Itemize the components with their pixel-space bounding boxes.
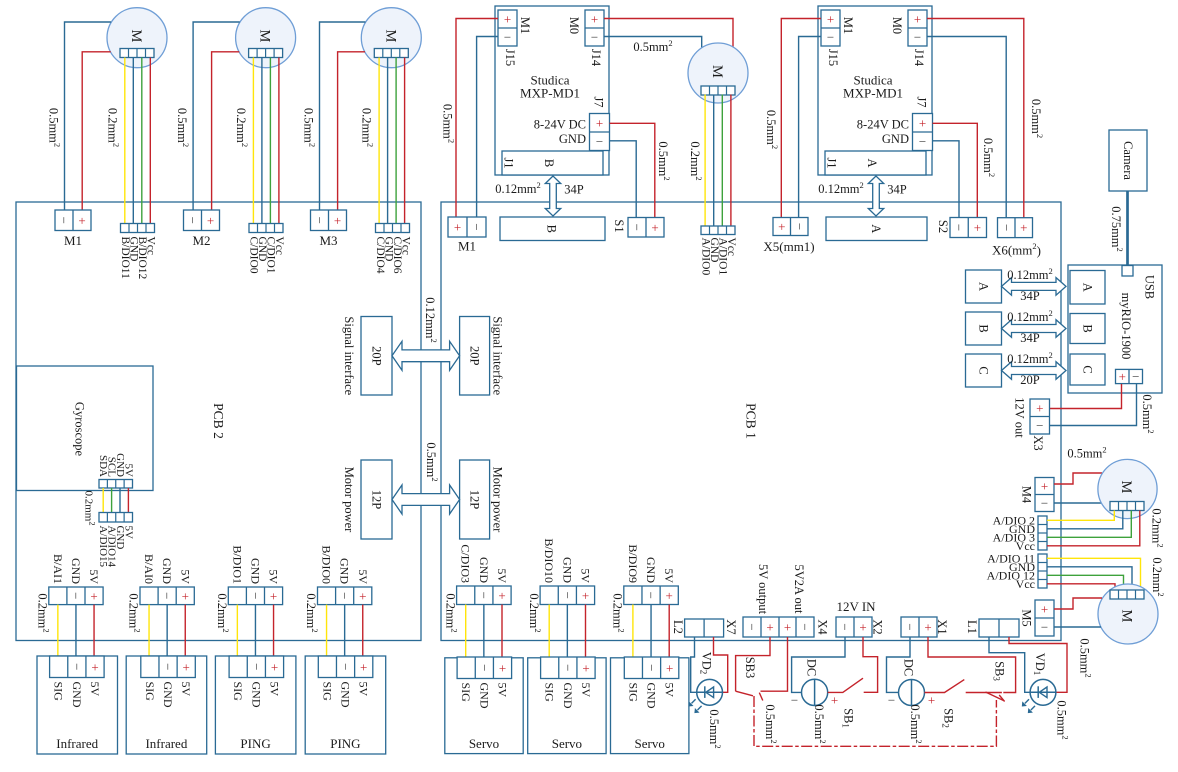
motor driver U1 Studica MXP-MD1 box bbox=[495, 6, 609, 175]
svg-text:L1: L1 bbox=[965, 620, 979, 634]
wire servo GND (blue) bbox=[650, 605, 652, 658]
connector B/DIO1 (PCB2 bottom header) bbox=[228, 587, 282, 605]
wire myRIO 12V+ to X3 (red) bbox=[1050, 384, 1122, 409]
svg-text:M1: M1 bbox=[518, 17, 532, 34]
wire L2-2 to VD2 (red) bbox=[714, 637, 728, 692]
U2 connector M1 (J15) bbox=[821, 10, 840, 46]
svg-text:X6(mm2): X6(mm2) bbox=[992, 241, 1041, 258]
svg-text:+: + bbox=[182, 588, 189, 603]
svg-text:0.2mm2: 0.2mm2 bbox=[215, 593, 231, 632]
svg-text:−: − bbox=[249, 663, 264, 670]
svg-text:−: − bbox=[1041, 496, 1048, 511]
connector M2 (PCB2 power terminal) bbox=[184, 210, 220, 231]
svg-text:−: − bbox=[504, 30, 511, 45]
connector X3 (12V out) bbox=[1030, 399, 1050, 434]
svg-text:+: + bbox=[582, 588, 589, 603]
svg-text:GND: GND bbox=[561, 683, 575, 709]
svg-text:5V: 5V bbox=[87, 569, 101, 584]
svg-text:−: − bbox=[827, 30, 834, 45]
wire M3 plus (0.5mm2 red) bbox=[338, 52, 365, 210]
svg-text:5V: 5V bbox=[496, 683, 510, 698]
box Signal interface 20P (PCB2 side) bbox=[361, 317, 392, 396]
wire U1 M0+ to motor (red) bbox=[604, 19, 733, 47]
wire center motor encoder yellow bbox=[704, 95, 706, 227]
svg-text:−: − bbox=[469, 223, 484, 230]
svg-text:−: − bbox=[68, 592, 83, 599]
svg-text:SB3: SB3 bbox=[743, 657, 757, 679]
svg-text:Gyroscope: Gyroscope bbox=[73, 402, 87, 457]
svg-text:+: + bbox=[591, 12, 598, 27]
svg-text:−: − bbox=[838, 623, 853, 630]
svg-text:PCB 2: PCB 2 bbox=[211, 403, 226, 439]
svg-text:M: M bbox=[257, 30, 273, 43]
svg-text:SIG: SIG bbox=[626, 683, 640, 703]
connector X2 bbox=[836, 617, 872, 637]
connector X5 bbox=[773, 218, 808, 236]
svg-text:B/DIO1: B/DIO1 bbox=[230, 545, 244, 584]
svg-text:C: C bbox=[1081, 365, 1095, 373]
wire U1 J7+ to S1+ (red) bbox=[610, 123, 655, 218]
svg-text:+: + bbox=[928, 693, 935, 708]
svg-text:0.2mm2: 0.2mm2 bbox=[1150, 557, 1166, 596]
svg-text:−: − bbox=[919, 134, 926, 149]
connector L1 bbox=[979, 619, 1019, 637]
svg-text:J7: J7 bbox=[915, 96, 929, 107]
svg-text:0.5mm2: 0.5mm2 bbox=[441, 104, 457, 143]
svg-text:Camera: Camera bbox=[1121, 141, 1135, 180]
wire PING 5V (red) bbox=[273, 605, 275, 656]
switch SB3b blade bbox=[986, 692, 1004, 701]
svg-text:GND: GND bbox=[69, 558, 83, 584]
svg-text:J1: J1 bbox=[502, 157, 516, 168]
svg-text:Infrared: Infrared bbox=[56, 736, 98, 751]
svg-text:M: M bbox=[1119, 610, 1135, 623]
U1 connector M1 (J15) bbox=[498, 10, 517, 46]
svg-text:VD1: VD1 bbox=[1032, 653, 1047, 676]
svg-text:+: + bbox=[360, 659, 367, 674]
wire M3 encoder green bbox=[395, 58, 397, 224]
wire L2-1 to VD2 (blue) bbox=[691, 637, 697, 692]
connector S1 bbox=[628, 218, 664, 238]
wire U2 M1+ to X5+ (red) bbox=[781, 19, 821, 218]
svg-text:−: − bbox=[560, 664, 575, 671]
svg-text:GND: GND bbox=[338, 558, 352, 584]
svg-text:−: − bbox=[644, 592, 659, 599]
svg-text:+: + bbox=[666, 660, 673, 675]
wire M2 minus (0.5mm2 blue) bbox=[193, 22, 240, 210]
LED VD1 bbox=[1030, 679, 1056, 705]
svg-text:J14: J14 bbox=[589, 49, 603, 67]
svg-text:DC: DC bbox=[805, 659, 819, 676]
svg-text:0.2mm2: 0.2mm2 bbox=[35, 593, 51, 632]
svg-text:+: + bbox=[1041, 602, 1048, 617]
svg-text:X2: X2 bbox=[871, 619, 885, 634]
connector PCB2 gyro pins (A/DIO15 A/DIO14 GND 5V) bbox=[99, 513, 133, 523]
wire M1 encoder red bbox=[149, 58, 151, 224]
wire M3 encoder red bbox=[404, 58, 406, 224]
svg-text:5V: 5V bbox=[356, 569, 370, 584]
svg-text:20P: 20P bbox=[468, 346, 482, 366]
svg-text:X7: X7 bbox=[724, 619, 738, 634]
svg-text:0.5mm2: 0.5mm2 bbox=[175, 108, 191, 147]
servo box bbox=[611, 658, 689, 754]
connector Infrared (SIG GND 5V) bbox=[50, 656, 105, 678]
svg-text:+: + bbox=[666, 588, 673, 603]
svg-text:DC: DC bbox=[902, 659, 916, 676]
svg-text:8-24V DC: 8-24V DC bbox=[857, 117, 909, 131]
svg-text:−: − bbox=[337, 592, 352, 599]
svg-text:GND: GND bbox=[160, 558, 174, 584]
svg-text:−: − bbox=[1036, 418, 1043, 433]
PCB 2 board outline bbox=[16, 202, 421, 641]
svg-text:+: + bbox=[499, 660, 506, 675]
svg-text:J14: J14 bbox=[912, 49, 926, 67]
svg-text:J7: J7 bbox=[592, 96, 606, 107]
svg-text:+: + bbox=[454, 220, 461, 235]
svg-text:0.2mm2: 0.2mm2 bbox=[443, 593, 459, 632]
svg-text:−: − bbox=[644, 664, 659, 671]
svg-text:0.12mm2: 0.12mm2 bbox=[818, 180, 864, 196]
connector B/AI1 (PCB2 bottom header) bbox=[49, 587, 103, 605]
svg-text:GND: GND bbox=[338, 682, 352, 708]
U1 connector J7 power in bbox=[590, 114, 610, 151]
svg-text:34P: 34P bbox=[1020, 331, 1040, 345]
svg-text:B: B bbox=[1081, 324, 1095, 332]
svg-text:M1: M1 bbox=[458, 239, 476, 254]
svg-text:Vcc: Vcc bbox=[399, 237, 411, 256]
wire X2+ to SB1 contact (red) bbox=[863, 637, 878, 692]
wire servo GND (blue) bbox=[483, 605, 485, 658]
wire myRIO 12V- to X3 (blue) bbox=[1050, 384, 1137, 426]
svg-text:+: + bbox=[582, 660, 589, 675]
svg-text:Signal interface: Signal interface bbox=[342, 316, 356, 395]
wire M5 encoder yellow bbox=[1047, 558, 1141, 590]
wire PING signal (yellow) bbox=[326, 605, 328, 656]
connector A (myRIO side) bbox=[1070, 271, 1105, 305]
svg-text:+: + bbox=[90, 588, 97, 603]
svg-text:−: − bbox=[69, 663, 84, 670]
svg-text:5V: 5V bbox=[662, 568, 676, 583]
svg-text:GND: GND bbox=[248, 558, 262, 584]
svg-text:20P: 20P bbox=[370, 346, 384, 366]
svg-text:0.2mm2: 0.2mm2 bbox=[83, 490, 98, 525]
svg-text:5V: 5V bbox=[579, 568, 593, 583]
ribbon arrow C bbox=[1002, 362, 1067, 380]
connector PING (SIG GND 5V) bbox=[318, 656, 373, 678]
connector Infrared (SIG GND 5V) bbox=[141, 656, 196, 678]
wire Infrared signal (yellow) bbox=[148, 605, 150, 656]
connector M3 (PCB2 power terminal) bbox=[311, 210, 347, 231]
wire X4+ to SB3 (red) bbox=[736, 637, 770, 691]
motor M5 (DC motor symbol) bbox=[1098, 584, 1158, 644]
svg-text:0.5mm2: 0.5mm2 bbox=[302, 108, 318, 147]
connector A (PCB1 side) bbox=[966, 270, 1002, 303]
wire PING GND (blue) bbox=[254, 605, 256, 656]
connector B/AI0 (PCB2 bottom header) bbox=[140, 587, 194, 605]
svg-text:+: + bbox=[359, 588, 366, 603]
wire M5 encoder red bbox=[1047, 584, 1115, 590]
svg-text:M: M bbox=[709, 65, 725, 78]
LED VD2 bbox=[697, 679, 723, 705]
svg-text:+: + bbox=[766, 620, 773, 635]
svg-text:B/AI0: B/AI0 bbox=[142, 554, 156, 584]
switch SB2 blade (from DC2+) bbox=[925, 680, 965, 693]
svg-text:+: + bbox=[1041, 479, 1048, 494]
connector A (34P header on PCB1) bbox=[826, 217, 927, 241]
svg-text:+: + bbox=[859, 620, 866, 635]
svg-text:0.2mm2: 0.2mm2 bbox=[1150, 508, 1166, 547]
connector M4 bbox=[1035, 478, 1054, 512]
connector S2 bbox=[950, 218, 987, 238]
connector M1 (PCB2 power terminal) bbox=[55, 210, 91, 231]
svg-text:J15: J15 bbox=[503, 49, 517, 66]
svg-text:−: − bbox=[57, 217, 72, 224]
svg-text:5V: 5V bbox=[579, 683, 593, 698]
svg-text:0.2mm2: 0.2mm2 bbox=[127, 593, 143, 632]
svg-text:MXP-MD1: MXP-MD1 bbox=[843, 86, 903, 101]
svg-text:5V: 5V bbox=[122, 526, 134, 540]
svg-text:12P: 12P bbox=[468, 490, 482, 510]
connector M1 encoder pins bbox=[121, 224, 155, 233]
wire gyro 5V (red) bbox=[127, 488, 129, 513]
svg-text:SB1: SB1 bbox=[841, 708, 856, 728]
camera box bbox=[1109, 130, 1147, 191]
svg-text:0.5mm2: 0.5mm2 bbox=[908, 704, 924, 743]
wire servo signal (yellow) bbox=[465, 605, 467, 658]
svg-text:+: + bbox=[334, 213, 341, 228]
svg-text:+: + bbox=[271, 659, 278, 674]
svg-text:M3: M3 bbox=[319, 233, 337, 248]
svg-text:+: + bbox=[207, 213, 214, 228]
svg-text:M: M bbox=[1118, 481, 1134, 494]
wire Infrared 5V (red) bbox=[184, 605, 186, 656]
wire X1- to DC2 (blue) bbox=[887, 637, 911, 692]
wire servo GND (blue) bbox=[566, 605, 568, 658]
wire PING GND (blue) bbox=[344, 605, 346, 656]
svg-text:5V: 5V bbox=[122, 464, 134, 478]
wire PING signal (yellow) bbox=[236, 605, 238, 656]
box Signal interface 20P (PCB1 side) bbox=[460, 317, 490, 396]
wire L1-2 to VD1 (red) bbox=[1009, 637, 1067, 692]
svg-text:GND: GND bbox=[559, 132, 586, 146]
connector B/DIO0 (PCB2 bottom header) bbox=[318, 587, 372, 605]
U2 connector M0 (J14) bbox=[908, 10, 927, 46]
connector A/DIO11 pins (M5 encoder) bbox=[1038, 554, 1047, 588]
svg-text:−: − bbox=[903, 623, 918, 630]
wire M3 encoder yellow bbox=[378, 58, 380, 224]
switch SB1 blade (from DC1+) bbox=[828, 678, 863, 692]
wire M5- (blue) bbox=[1054, 626, 1101, 628]
wire M5 encoder blue bbox=[1047, 567, 1132, 590]
svg-text:B/DIO10: B/DIO10 bbox=[542, 538, 556, 583]
wire gyro GND (blue) bbox=[119, 488, 121, 513]
svg-text:M: M bbox=[128, 30, 144, 43]
wire M4 encoder red bbox=[1047, 511, 1140, 546]
wire gyro SCL (green) bbox=[111, 488, 113, 513]
svg-text:GND: GND bbox=[644, 557, 658, 583]
svg-text:M2: M2 bbox=[192, 233, 210, 248]
DC source G1 bbox=[802, 679, 828, 705]
svg-text:−: − bbox=[1132, 369, 1139, 384]
svg-text:SIG: SIG bbox=[52, 682, 66, 702]
wire PING 5V (red) bbox=[362, 605, 364, 656]
connector C/DIO3 (PCB1 bottom header) bbox=[457, 586, 512, 605]
controller myRIO-1900 box bbox=[1068, 265, 1162, 393]
svg-text:+: + bbox=[183, 659, 190, 674]
svg-text:5V output: 5V output bbox=[756, 564, 770, 615]
wire M2 encoder blue bbox=[261, 58, 263, 224]
U1 connector J1 (B) bbox=[502, 151, 603, 175]
connector B (myRIO side) bbox=[1070, 314, 1105, 344]
svg-text:−: − bbox=[560, 592, 575, 599]
wire servo signal (yellow) bbox=[632, 605, 634, 658]
motor M3 (DC motor symbol) bbox=[361, 8, 421, 68]
motor driver U2 Studica MXP-MD1 box bbox=[818, 6, 932, 175]
connector B/DIO9 (PCB1 bottom header) bbox=[624, 586, 679, 605]
svg-text:M1: M1 bbox=[841, 17, 855, 34]
wire Infrared signal (yellow) bbox=[57, 605, 59, 656]
svg-text:B/DIO9: B/DIO9 bbox=[626, 544, 640, 583]
svg-text:S1: S1 bbox=[612, 219, 626, 232]
svg-text:SB3: SB3 bbox=[992, 661, 1007, 681]
wire U2 J7- to S2- (blue) bbox=[933, 141, 960, 218]
svg-text:M: M bbox=[382, 30, 398, 43]
wire SB3 to X4 5V2A (red) bbox=[761, 637, 788, 691]
connector C (myRIO side) bbox=[1070, 354, 1105, 385]
connector myRIO 12V power bbox=[1116, 369, 1143, 383]
wire center motor encoder green bbox=[721, 95, 723, 227]
svg-text:Infrared: Infrared bbox=[145, 736, 187, 751]
svg-text:SIG: SIG bbox=[231, 682, 245, 702]
connector gyroscope pins (SDA SCL GND 5V) bbox=[99, 480, 133, 489]
svg-text:34P: 34P bbox=[564, 183, 584, 197]
connector B (34P header on PCB1) bbox=[500, 217, 605, 241]
svg-text:PING: PING bbox=[240, 736, 270, 751]
svg-text:+: + bbox=[974, 220, 981, 235]
wire center motor encoder blue bbox=[713, 95, 715, 227]
svg-text:J15: J15 bbox=[826, 49, 840, 66]
wire M2 encoder yellow bbox=[252, 58, 254, 224]
svg-text:−: − bbox=[791, 692, 798, 707]
svg-text:0.2mm2: 0.2mm2 bbox=[304, 593, 320, 632]
svg-text:−: − bbox=[596, 134, 603, 149]
motor M1 (DC motor symbol) bbox=[107, 8, 167, 68]
svg-text:20P: 20P bbox=[1020, 373, 1040, 387]
wire M1 plus (0.5mm2 red) bbox=[82, 52, 111, 210]
wire M3 encoder blue bbox=[387, 58, 389, 224]
wire U1 M1- to PCB1 M1- (blue) bbox=[477, 37, 498, 218]
svg-text:Vcc: Vcc bbox=[725, 238, 737, 257]
U1 connector M0 (J14) bbox=[585, 10, 604, 46]
motor M4 (DC motor symbol) bbox=[1098, 459, 1157, 518]
svg-text:5V: 5V bbox=[495, 568, 509, 583]
svg-text:0.75mm2: 0.75mm2 bbox=[1109, 206, 1125, 252]
svg-text:0.5mm2: 0.5mm2 bbox=[1067, 445, 1106, 461]
svg-text:GND: GND bbox=[70, 682, 84, 708]
svg-text:12P: 12P bbox=[370, 490, 384, 510]
wire M3 minus (0.5mm2 blue) bbox=[320, 22, 366, 210]
svg-text:5V2A out: 5V2A out bbox=[792, 565, 806, 614]
wire M2 encoder green bbox=[269, 58, 271, 224]
svg-text:−: − bbox=[745, 623, 760, 630]
sensor box Infrared bbox=[37, 656, 118, 754]
box Motor power 12P (PCB1 side) bbox=[460, 460, 490, 539]
svg-text:Motor power: Motor power bbox=[491, 467, 505, 533]
svg-text:A: A bbox=[865, 158, 879, 167]
svg-text:GND: GND bbox=[477, 683, 491, 709]
svg-text:5V: 5V bbox=[179, 682, 193, 697]
connector M5 bbox=[1035, 600, 1054, 636]
wire U2 J7+ to S2+ (red) bbox=[933, 123, 978, 217]
svg-text:0.5mm2: 0.5mm2 bbox=[1140, 394, 1156, 433]
connector A/DIO0 pins (center motor) bbox=[701, 226, 735, 235]
svg-text:SIG: SIG bbox=[459, 683, 473, 703]
wire camera USB (0.75mm2) bbox=[1126, 191, 1129, 272]
wire X1+ to SB3b (red) bbox=[928, 637, 1016, 693]
svg-text:0.2mm2: 0.2mm2 bbox=[105, 108, 121, 147]
svg-text:5V: 5V bbox=[88, 682, 102, 697]
svg-text:−: − bbox=[248, 592, 263, 599]
svg-text:+: + bbox=[827, 12, 834, 27]
svg-text:−: − bbox=[798, 623, 813, 630]
svg-text:Signal interface: Signal interface bbox=[491, 316, 505, 395]
wire center motor encoder red bbox=[730, 95, 732, 227]
U2 connector J7 power in bbox=[913, 114, 933, 151]
svg-text:0.5mm2: 0.5mm2 bbox=[424, 442, 440, 481]
svg-text:GND: GND bbox=[882, 132, 909, 146]
wire M2 plus (0.5mm2 red) bbox=[212, 52, 240, 210]
svg-text:0.5mm2: 0.5mm2 bbox=[633, 38, 672, 54]
connector M1 (PCB1 top) bbox=[448, 217, 486, 237]
svg-text:−: − bbox=[591, 30, 598, 45]
svg-text:B: B bbox=[542, 159, 556, 167]
svg-text:0.5mm2: 0.5mm2 bbox=[1029, 99, 1045, 138]
wire M4+ (red) bbox=[1054, 473, 1102, 484]
connector M2 encoder pins bbox=[249, 224, 283, 233]
svg-text:0.5mm2: 0.5mm2 bbox=[707, 709, 723, 748]
svg-text:−: − bbox=[185, 217, 200, 224]
svg-text:0.5mm2: 0.5mm2 bbox=[656, 141, 672, 180]
svg-text:C/DIO3: C/DIO3 bbox=[459, 544, 473, 583]
svg-text:0.5mm2: 0.5mm2 bbox=[1078, 638, 1094, 677]
svg-text:−: − bbox=[338, 663, 353, 670]
svg-text:X3: X3 bbox=[1031, 435, 1045, 450]
wire M5+ (red) bbox=[1054, 598, 1102, 609]
svg-text:−: − bbox=[792, 223, 807, 230]
svg-text:0.2mm2: 0.2mm2 bbox=[527, 593, 543, 632]
wire servo 5V (red) bbox=[501, 605, 503, 658]
svg-text:GND: GND bbox=[560, 557, 574, 583]
svg-text:VD2: VD2 bbox=[699, 652, 714, 675]
svg-text:34P: 34P bbox=[887, 183, 907, 197]
wire U1 M1+ to PCB1 M1+ (red) bbox=[456, 19, 498, 218]
svg-text:SIG: SIG bbox=[143, 682, 157, 702]
wire servo signal (yellow) bbox=[548, 605, 550, 658]
sensor box PING bbox=[305, 656, 386, 754]
wire M4- (blue) bbox=[1054, 502, 1110, 504]
svg-text:0.12mm2: 0.12mm2 bbox=[495, 180, 541, 196]
PCB 1 board outline bbox=[441, 202, 1061, 641]
svg-text:0.12mm2: 0.12mm2 bbox=[423, 297, 439, 343]
switch SB3b tick bbox=[999, 695, 1004, 702]
svg-text:GND: GND bbox=[645, 683, 659, 709]
svg-text:+: + bbox=[831, 692, 838, 707]
svg-text:X1: X1 bbox=[935, 619, 949, 634]
sensor box Infrared bbox=[126, 656, 207, 754]
wire U1 J7- to S1- (blue) bbox=[610, 141, 637, 218]
svg-text:0.5mm2: 0.5mm2 bbox=[47, 108, 63, 147]
box Motor power 12P (PCB2 side) bbox=[361, 460, 392, 539]
